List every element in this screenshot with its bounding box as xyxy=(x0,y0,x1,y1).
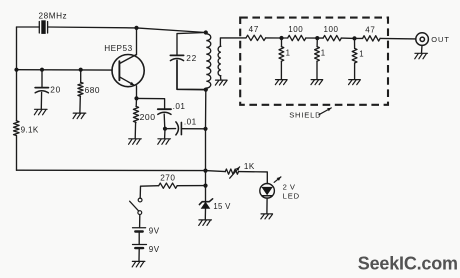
shield pointer arrow xyxy=(319,108,331,115)
node C1 junction xyxy=(40,68,44,72)
wire shunt1 top lead xyxy=(281,38,283,47)
label .01 first xyxy=(173,102,186,111)
label HEP53 xyxy=(104,44,132,53)
wire right bus middle xyxy=(205,129,207,171)
label LED xyxy=(283,191,300,200)
svg-text:100: 100 xyxy=(288,25,303,34)
label 2V xyxy=(283,183,296,192)
wire C3 right lead xyxy=(181,128,205,130)
resistor R3 200 xyxy=(133,106,138,122)
label 9.1K xyxy=(21,125,39,134)
svg-text:9V: 9V xyxy=(149,227,160,236)
wire top rail right segment xyxy=(137,28,206,33)
resistor R1 9.1K xyxy=(14,121,20,136)
label 47 second xyxy=(365,26,376,35)
wire shunt2 bottom lead xyxy=(316,61,318,79)
wire top rail left segment xyxy=(17,26,40,28)
node R2 junction xyxy=(79,68,83,72)
resistor R5a 100 xyxy=(288,35,306,40)
ground below zener xyxy=(199,220,212,226)
ground below C1 xyxy=(34,109,47,115)
wire LED bottom lead xyxy=(266,198,268,213)
wire R3 bottom lead xyxy=(134,122,136,138)
ground below battery xyxy=(132,261,145,267)
wire emitter xyxy=(136,86,138,99)
label 28MHz xyxy=(39,12,68,21)
connector J1 OUT xyxy=(416,33,429,46)
label 270 xyxy=(160,174,175,183)
svg-text:OUT: OUT xyxy=(431,35,450,44)
wire R2 bottom lead xyxy=(79,96,81,112)
inductor L2 secondary xyxy=(218,46,221,76)
svg-text:1: 1 xyxy=(321,48,325,57)
svg-text:15 V: 15 V xyxy=(213,202,231,211)
svg-text:1: 1 xyxy=(359,49,363,58)
wire right bus upper xyxy=(205,90,207,129)
resistor R2 680 xyxy=(78,82,83,96)
svg-text:1: 1 xyxy=(286,48,290,57)
crystal Y1 28MHz xyxy=(39,20,47,34)
node attenuator junction 1 xyxy=(279,36,283,40)
ground below jack xyxy=(415,53,428,59)
wire zener bottom lead xyxy=(204,209,206,220)
wire C4 bottom lead xyxy=(177,60,206,89)
label 22 xyxy=(186,53,197,63)
wire battery to ground xyxy=(138,249,140,261)
node base-rail left junction xyxy=(14,68,18,72)
label 1 first xyxy=(286,48,290,57)
diode D1 zener 15V xyxy=(199,199,212,209)
label 20 xyxy=(50,85,61,95)
ground below R6c xyxy=(349,80,361,85)
wire shunt2 top lead xyxy=(316,38,318,47)
svg-text:SHIELD: SHIELD xyxy=(289,111,321,120)
resistor R8 1K xyxy=(225,167,239,178)
label .01 second xyxy=(184,117,197,126)
resistor R6a 1 xyxy=(279,47,284,62)
label 100 first xyxy=(288,25,303,34)
wire C2 bottom lead xyxy=(163,114,166,129)
wire R7 right lead xyxy=(177,185,205,187)
svg-text:47: 47 xyxy=(365,26,376,35)
wire shunt1 bottom lead xyxy=(280,61,282,79)
resistor R5b 100 xyxy=(323,35,341,40)
resistor R4a 47 xyxy=(246,35,266,40)
svg-text:1K: 1K xyxy=(244,162,255,171)
svg-text:HEP53: HEP53 xyxy=(104,44,132,53)
wire shunt3 bottom lead xyxy=(354,63,356,79)
label 47 first xyxy=(249,25,260,34)
label 1 third xyxy=(359,49,363,58)
wire R3 top lead xyxy=(135,98,137,106)
label SHIELD xyxy=(289,111,321,120)
svg-text:100: 100 xyxy=(324,25,339,34)
svg-text:LED: LED xyxy=(283,191,300,200)
svg-text:22: 22 xyxy=(186,53,197,63)
wire rheostat left lead xyxy=(206,171,226,172)
wire base rail xyxy=(17,69,113,71)
wire rheostat right lead xyxy=(239,172,268,184)
resistor R6b 1 xyxy=(315,47,320,62)
node bottom-rail junction xyxy=(203,169,207,173)
svg-text:.01: .01 xyxy=(173,102,186,111)
svg-text:20: 20 xyxy=(50,85,61,95)
battery B2 9V xyxy=(133,245,147,249)
wire shunt3 top lead xyxy=(354,38,356,48)
node C2-C3 junction xyxy=(163,127,167,131)
wire right bus lower xyxy=(205,171,207,186)
ground below R2 xyxy=(73,113,86,119)
watermark SeekIC.com xyxy=(358,253,458,273)
ground below L2 xyxy=(215,80,227,85)
wire R5b to node3 xyxy=(341,37,354,39)
ground below R3 xyxy=(129,139,142,145)
label 15V xyxy=(213,202,231,211)
node tank-bottom junction xyxy=(204,88,208,92)
wire R5a to node2 xyxy=(306,37,318,39)
wire C3 left lead xyxy=(165,128,176,130)
transistor Q1 HEP53 xyxy=(112,55,144,87)
node attenuator junction 3 xyxy=(352,36,356,40)
ground below LED xyxy=(261,214,273,219)
label 680 xyxy=(85,85,101,95)
wire bottom rail xyxy=(17,169,206,171)
wire R4a to node xyxy=(266,37,282,39)
label 1 second xyxy=(321,48,325,57)
svg-text:28MHz: 28MHz xyxy=(39,12,68,21)
svg-text:47: 47 xyxy=(249,25,260,34)
wire node2 to R5b xyxy=(317,37,323,39)
node attenuator junction 2 xyxy=(315,36,319,40)
switch S1 xyxy=(130,198,142,214)
resistor R6c 1 xyxy=(352,48,357,63)
wire node1 to R5a xyxy=(282,37,288,39)
capacitor C2 .01 xyxy=(158,109,171,114)
wire C4 top lead xyxy=(177,33,206,56)
resistor R7 270 xyxy=(159,183,178,188)
label 9V second xyxy=(149,245,160,254)
wire C2 top lead xyxy=(137,98,165,109)
wire top rail middle segment xyxy=(48,26,137,29)
wire jack to ground xyxy=(421,45,424,52)
node collector-top junction xyxy=(134,26,138,30)
capacitor C4 22 xyxy=(170,55,183,60)
wire R4b to output jack xyxy=(380,37,416,40)
wire L2 top lead xyxy=(220,38,246,46)
ground below R6a xyxy=(275,80,287,85)
wire zener top lead xyxy=(205,186,207,202)
capacitor C3 .01 xyxy=(176,122,182,135)
svg-text:9.1K: 9.1K xyxy=(21,125,39,134)
svg-text:SeekIC.com: SeekIC.com xyxy=(358,253,458,273)
inductor L1 primary xyxy=(206,34,211,88)
node zener junction xyxy=(203,184,207,188)
wire L2 bottom lead xyxy=(219,76,221,80)
label 100 second xyxy=(324,25,339,34)
node C3 right junction xyxy=(203,127,207,131)
ground below C2 node xyxy=(158,139,171,145)
svg-text:9V: 9V xyxy=(149,245,160,254)
shield box xyxy=(240,18,388,105)
wire between batteries xyxy=(138,233,140,245)
wire C1 bottom lead xyxy=(40,92,42,108)
wire R2 top lead xyxy=(80,70,82,83)
wire C3 node to ground xyxy=(164,129,166,139)
battery B1 9V xyxy=(133,228,146,232)
svg-text:200: 200 xyxy=(140,112,156,122)
svg-text:270: 270 xyxy=(160,174,175,183)
wire collector xyxy=(136,28,138,55)
node tank-top junction xyxy=(204,30,208,34)
label 200 xyxy=(140,112,156,122)
wire left rail vertical xyxy=(16,27,18,170)
label 1K xyxy=(244,162,255,171)
label OUT xyxy=(431,35,450,44)
resistor R4b 47 xyxy=(363,36,381,41)
svg-text:680: 680 xyxy=(85,85,101,95)
LED D2 2V xyxy=(260,177,281,198)
wire switch to battery xyxy=(139,215,141,228)
ground below R6b xyxy=(311,80,323,85)
node emitter junction xyxy=(134,96,138,100)
wire node3 to R4b xyxy=(355,37,363,39)
wire C1 top lead xyxy=(41,70,43,88)
label 9V first xyxy=(149,227,160,236)
capacitor C1 20 xyxy=(35,88,48,93)
wire R7 left lead xyxy=(140,186,159,199)
svg-text:.01: .01 xyxy=(184,117,197,126)
